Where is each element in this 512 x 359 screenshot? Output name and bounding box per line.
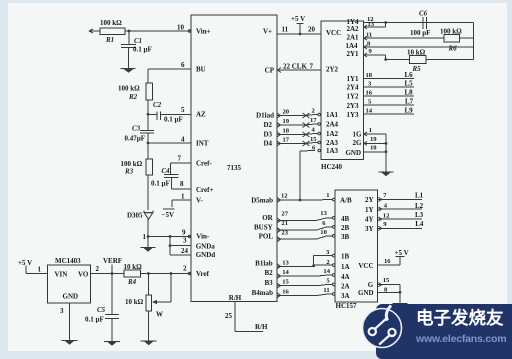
- svg-text:C1: C1: [134, 37, 142, 45]
- svg-text:D1lad: D1lad: [256, 112, 274, 120]
- svg-text:14: 14: [282, 269, 289, 276]
- svg-text:C4: C4: [162, 167, 171, 175]
- svg-text:L9: L9: [405, 107, 414, 115]
- svg-text:4A: 4A: [341, 273, 350, 281]
- svg-text:3Y: 3Y: [365, 225, 374, 233]
- svg-text:1: 1: [181, 193, 185, 201]
- svg-text:2A1: 2A1: [346, 34, 359, 42]
- svg-text:25: 25: [225, 312, 233, 320]
- svg-text:1G: 1G: [353, 131, 363, 139]
- svg-text:BUSY: BUSY: [254, 224, 273, 232]
- svg-text:L4: L4: [415, 220, 424, 228]
- svg-text:C5: C5: [97, 306, 106, 314]
- svg-text:9: 9: [182, 229, 186, 237]
- svg-text:V+: V+: [263, 28, 272, 36]
- svg-text:8: 8: [180, 180, 184, 188]
- svg-text:2Y3: 2Y3: [346, 102, 359, 110]
- svg-text:15: 15: [282, 279, 289, 286]
- svg-text:GND: GND: [345, 149, 361, 157]
- svg-text:23: 23: [281, 230, 288, 237]
- svg-text:100 kΩ: 100 kΩ: [440, 28, 462, 36]
- svg-text:14: 14: [366, 108, 373, 115]
- svg-text:1A: 1A: [341, 263, 350, 271]
- svg-text:15: 15: [383, 277, 390, 284]
- svg-text:G: G: [368, 281, 374, 289]
- svg-text:V-: V-: [196, 197, 204, 205]
- svg-text:Vin+: Vin+: [196, 28, 211, 36]
- svg-text:L3: L3: [415, 211, 424, 219]
- svg-text:R/H: R/H: [229, 294, 242, 302]
- svg-text:L6: L6: [405, 71, 414, 79]
- svg-text:2: 2: [96, 265, 100, 273]
- svg-text:100 kΩ: 100 kΩ: [118, 85, 140, 93]
- svg-text:R3: R3: [124, 168, 134, 176]
- svg-text:L7: L7: [405, 98, 414, 106]
- svg-text:10: 10: [177, 24, 185, 32]
- svg-text:7135: 7135: [227, 164, 242, 172]
- svg-text:15: 15: [310, 136, 317, 143]
- svg-text:B1lab: B1lab: [255, 260, 273, 268]
- svg-text:100 pF: 100 pF: [410, 29, 430, 37]
- svg-text:1Y2: 1Y2: [346, 93, 359, 101]
- svg-text:100 kΩ: 100 kΩ: [100, 19, 122, 27]
- svg-text:24: 24: [181, 247, 189, 255]
- svg-text:10 kΩ: 10 kΩ: [125, 298, 144, 306]
- svg-text:1: 1: [326, 192, 329, 199]
- svg-text:L8: L8: [405, 89, 414, 97]
- svg-text:20: 20: [308, 26, 316, 34]
- svg-text:1A4: 1A4: [345, 42, 358, 50]
- svg-text:R5: R5: [412, 65, 422, 73]
- svg-text:VCC: VCC: [358, 262, 373, 270]
- svg-text:VO: VO: [78, 271, 89, 279]
- svg-text:17: 17: [310, 117, 317, 124]
- svg-text:HC157: HC157: [336, 302, 358, 310]
- svg-text:C3: C3: [132, 125, 141, 133]
- svg-text:2Y1: 2Y1: [346, 50, 359, 58]
- svg-text:0.1 µF: 0.1 µF: [85, 316, 104, 324]
- svg-text:BU: BU: [196, 66, 206, 74]
- svg-text:1A1: 1A1: [326, 111, 339, 119]
- svg-text:www.elecfans.com: www.elecfans.com: [415, 333, 506, 345]
- svg-text:2: 2: [183, 265, 187, 273]
- svg-text:VIN: VIN: [55, 271, 68, 279]
- svg-text:2A4: 2A4: [326, 121, 339, 129]
- svg-text:12: 12: [281, 193, 288, 200]
- svg-text:16: 16: [282, 288, 289, 295]
- svg-text:22 CLK: 22 CLK: [283, 63, 307, 71]
- svg-text:L5: L5: [405, 80, 414, 88]
- svg-text:R4: R4: [127, 278, 137, 286]
- svg-text:16: 16: [366, 90, 373, 97]
- svg-text:C6: C6: [419, 10, 428, 18]
- svg-text:2Y: 2Y: [365, 196, 374, 204]
- svg-text:R1: R1: [105, 36, 114, 44]
- svg-text:POL: POL: [259, 233, 274, 241]
- svg-text:3: 3: [183, 237, 187, 245]
- svg-text:D305: D305: [127, 212, 143, 220]
- svg-text:7: 7: [310, 63, 314, 71]
- svg-text:7: 7: [178, 155, 182, 163]
- svg-text:1A3: 1A3: [326, 147, 339, 155]
- svg-text:GNDd: GNDd: [196, 251, 216, 259]
- svg-text:1Y3: 1Y3: [346, 111, 359, 119]
- svg-text:1: 1: [369, 127, 372, 134]
- svg-text:19: 19: [370, 136, 377, 143]
- svg-text:16: 16: [384, 258, 391, 265]
- svg-text:6: 6: [181, 61, 185, 69]
- svg-text:C2: C2: [153, 101, 162, 109]
- svg-text:Cref+: Cref+: [196, 186, 213, 194]
- svg-text:2A3: 2A3: [326, 139, 339, 147]
- svg-text:+5 V: +5 V: [291, 15, 305, 23]
- svg-text:2Y2: 2Y2: [326, 66, 339, 74]
- svg-text:R2: R2: [128, 93, 138, 101]
- svg-text:VCC: VCC: [326, 29, 341, 37]
- svg-text:1A2: 1A2: [326, 130, 339, 138]
- svg-text:3: 3: [60, 307, 64, 315]
- svg-text:0.1 µF: 0.1 µF: [151, 179, 170, 187]
- svg-text:1: 1: [38, 266, 42, 274]
- svg-text:3A: 3A: [341, 292, 350, 300]
- svg-text:12: 12: [383, 212, 390, 219]
- svg-text:14: 14: [323, 268, 330, 275]
- svg-text:Vin-: Vin-: [196, 233, 210, 241]
- svg-text:B3: B3: [265, 279, 274, 287]
- svg-text:21: 21: [281, 220, 288, 227]
- svg-text:2G: 2G: [353, 139, 363, 147]
- svg-text:0.1 µF: 0.1 µF: [164, 116, 183, 124]
- svg-text:19: 19: [283, 118, 290, 125]
- svg-text:AZ: AZ: [196, 111, 206, 119]
- svg-text:D4: D4: [263, 140, 272, 148]
- svg-text:4B: 4B: [341, 215, 350, 223]
- svg-text:11: 11: [366, 32, 372, 39]
- svg-text:18: 18: [283, 128, 290, 135]
- svg-text:27: 27: [281, 211, 288, 218]
- svg-text:4: 4: [181, 136, 185, 144]
- svg-text:4Y: 4Y: [365, 215, 374, 223]
- svg-text:MC1403: MC1403: [55, 257, 81, 265]
- svg-text:Cref-: Cref-: [196, 160, 212, 168]
- svg-text:17: 17: [283, 137, 290, 144]
- svg-text:HC240: HC240: [321, 163, 343, 171]
- svg-text:−5V: −5V: [162, 211, 175, 219]
- svg-text:1Y: 1Y: [365, 206, 374, 214]
- svg-text:0.47µF: 0.47µF: [125, 135, 146, 143]
- svg-text:13: 13: [282, 259, 289, 266]
- svg-text:0.1 µF: 0.1 µF: [133, 46, 152, 54]
- svg-text:10 kΩ: 10 kΩ: [124, 263, 143, 271]
- svg-text:B4mab: B4mab: [252, 289, 274, 297]
- svg-text:GNDa: GNDa: [196, 243, 216, 251]
- svg-text:OR: OR: [262, 214, 273, 222]
- svg-text:D2: D2: [263, 121, 272, 129]
- svg-text:3B: 3B: [341, 233, 350, 241]
- svg-text:1B: 1B: [341, 253, 350, 261]
- svg-text:2B: 2B: [341, 224, 350, 232]
- svg-text:11: 11: [323, 287, 329, 294]
- svg-text:L1: L1: [415, 192, 424, 200]
- svg-text:11: 11: [282, 26, 289, 34]
- svg-text:INT: INT: [196, 140, 209, 148]
- svg-text:13: 13: [320, 210, 327, 217]
- svg-text:电子发烧友: 电子发烧友: [416, 308, 504, 328]
- svg-text:+5 V: +5 V: [18, 259, 32, 267]
- svg-text:CP: CP: [265, 67, 275, 75]
- svg-text:18: 18: [366, 72, 373, 79]
- svg-text:5: 5: [181, 106, 185, 114]
- svg-text:2Y4: 2Y4: [346, 84, 359, 92]
- svg-text:VERF: VERF: [103, 257, 122, 265]
- svg-text:D5mab: D5mab: [251, 197, 273, 205]
- svg-text:Vref: Vref: [196, 270, 210, 278]
- svg-text:W: W: [156, 311, 163, 319]
- svg-text:10: 10: [320, 229, 327, 236]
- svg-text:20: 20: [283, 109, 290, 116]
- svg-text:GND: GND: [358, 289, 374, 297]
- svg-text:R/H: R/H: [255, 323, 268, 331]
- svg-text:GND: GND: [63, 293, 79, 301]
- svg-text:1: 1: [143, 233, 147, 241]
- svg-text:13: 13: [368, 21, 375, 28]
- svg-text:D3: D3: [263, 131, 272, 139]
- svg-text:2A: 2A: [341, 283, 350, 291]
- svg-text:+5 V: +5 V: [395, 249, 409, 257]
- svg-text:10: 10: [370, 145, 377, 152]
- svg-text:B2: B2: [265, 269, 274, 277]
- svg-text:L2: L2: [415, 202, 424, 210]
- svg-text:R6: R6: [448, 45, 458, 53]
- svg-text:1Y1: 1Y1: [346, 75, 359, 83]
- svg-text:2A2: 2A2: [346, 25, 359, 33]
- svg-text:10 kΩ: 10 kΩ: [407, 49, 426, 57]
- svg-text:A/B: A/B: [340, 197, 352, 205]
